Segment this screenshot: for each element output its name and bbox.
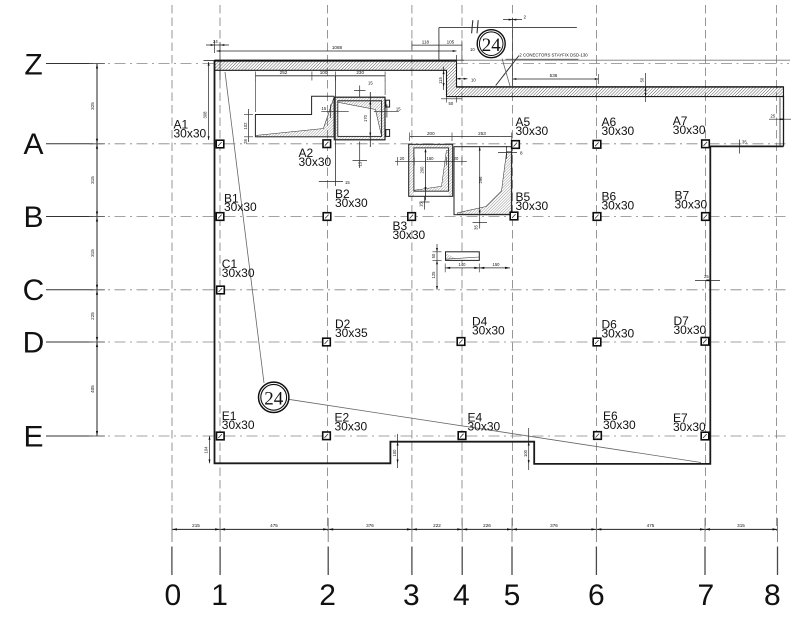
- svg-text:25: 25: [771, 114, 776, 119]
- elevator box S1 inner wall: [338, 101, 382, 137]
- svg-text:115: 115: [438, 76, 443, 83]
- S2 below-box dim 15: [420, 196, 430, 210]
- S2 right hatched wedge: [458, 152, 512, 215]
- label E4: [468, 411, 501, 434]
- svg-text:475: 475: [647, 523, 655, 528]
- label E1: [222, 409, 255, 432]
- svg-text:160: 160: [427, 156, 435, 161]
- column A6: [593, 141, 601, 149]
- stair structure S1 outline (A2 area): [255, 96, 334, 137]
- svg-text:0: 0: [164, 579, 181, 612]
- S2 centreline and dim 296: [473, 147, 488, 230]
- column E4: [458, 432, 466, 440]
- break mark slashes: [472, 20, 473, 33]
- svg-text:30x30: 30x30: [222, 418, 255, 432]
- svg-text:30x30: 30x30: [516, 199, 549, 213]
- svg-text:30x30: 30x30: [468, 420, 501, 434]
- svg-text:30x30: 30x30: [224, 200, 257, 214]
- svg-text:15: 15: [322, 106, 327, 111]
- svg-text:308: 308: [203, 111, 208, 119]
- S1 left wall centreline: [335, 76, 337, 186]
- right edge dim 25 at C-D: [695, 279, 720, 281]
- label B7: [675, 189, 708, 212]
- notch right dim 100: [523, 428, 530, 470]
- svg-text:325: 325: [90, 102, 95, 110]
- svg-text:24: 24: [482, 35, 502, 56]
- svg-text:200: 200: [420, 166, 425, 174]
- S1 bottom centreline cross 15: [353, 142, 368, 169]
- svg-text:Z: Z: [24, 49, 42, 82]
- svg-text:30x30: 30x30: [393, 228, 426, 242]
- bottom dimension chain: [172, 518, 778, 542]
- svg-text:D: D: [23, 326, 45, 359]
- svg-text:405: 405: [90, 385, 95, 393]
- label D7: [674, 314, 707, 337]
- grid vertical axis line 7: [705, 5, 707, 531]
- grid vertical axis line 6: [596, 5, 598, 531]
- label B5: [516, 190, 549, 213]
- label A1: [174, 118, 207, 141]
- svg-text:315: 315: [737, 523, 745, 528]
- svg-text:E: E: [23, 420, 43, 453]
- svg-text:30x30: 30x30: [603, 418, 636, 432]
- svg-text:15: 15: [358, 161, 363, 166]
- svg-text:7: 7: [697, 579, 714, 612]
- grid horizontal axis line B: [93, 216, 790, 218]
- label D6: [602, 318, 635, 341]
- column B5: [510, 212, 518, 220]
- svg-text:140: 140: [459, 262, 467, 267]
- label D4: [472, 315, 505, 338]
- svg-text:315: 315: [90, 176, 95, 184]
- dim 118/105: [412, 39, 475, 60]
- svg-text:315: 315: [90, 249, 95, 257]
- label E7: [673, 411, 706, 434]
- svg-text:230: 230: [356, 70, 364, 75]
- top wall with step (hatched): [215, 60, 784, 96]
- svg-text:376: 376: [550, 523, 558, 528]
- svg-text:118: 118: [422, 39, 430, 44]
- svg-text:24: 24: [264, 389, 284, 410]
- label A5: [516, 115, 549, 138]
- svg-text:35: 35: [474, 225, 479, 230]
- svg-text:30x30: 30x30: [673, 123, 706, 137]
- svg-text:2 CONECTORS STAYFIX DSD-130: 2 CONECTORS STAYFIX DSD-130: [519, 53, 588, 58]
- label B1: [224, 191, 257, 214]
- column E6: [594, 432, 602, 440]
- dim 24 at wall corner: [206, 39, 229, 53]
- svg-text:100: 100: [392, 449, 397, 457]
- parapet dim 25: [769, 118, 791, 120]
- svg-text:C: C: [23, 274, 45, 307]
- svg-text:20: 20: [400, 156, 405, 161]
- svg-text:30x35: 30x35: [335, 326, 368, 340]
- svg-text:5: 5: [504, 579, 521, 612]
- svg-text:8: 8: [520, 151, 523, 156]
- svg-text:296: 296: [478, 176, 483, 184]
- label A6: [602, 115, 635, 138]
- stair structure S2 left box outer wall (B3 area): [409, 144, 453, 196]
- svg-text:15: 15: [345, 180, 350, 185]
- S1 dimension line 252/100/230: [255, 70, 385, 112]
- dim 50 vertical on lower wall x=645: [640, 73, 647, 102]
- dim 2 at top: [503, 19, 522, 21]
- grid horizontal axis line Z: [93, 63, 215, 65]
- column E1: [217, 432, 225, 440]
- S1 cross tick left 15: [321, 105, 348, 119]
- svg-text:200: 200: [427, 131, 435, 136]
- svg-text:15: 15: [419, 202, 424, 207]
- svg-text:B: B: [23, 201, 43, 234]
- svg-text:30x30: 30x30: [602, 124, 635, 138]
- left dimension chain: [89, 64, 105, 437]
- column D4: [457, 338, 465, 346]
- svg-text:30x30: 30x30: [335, 420, 368, 434]
- svg-text:30x30: 30x30: [174, 126, 207, 140]
- label B3: [393, 219, 426, 242]
- elevator box S1 outer wall: [334, 97, 385, 140]
- column E2: [323, 432, 331, 440]
- top detail boundary line: [439, 27, 577, 29]
- grid horizontal axis line C: [93, 289, 790, 291]
- landing slab S3: [446, 252, 480, 261]
- label B2: [335, 187, 368, 210]
- svg-text:2: 2: [319, 579, 336, 612]
- svg-text:35: 35: [742, 140, 747, 145]
- dim 536 on lower wall: [513, 73, 599, 84]
- label D2: [335, 317, 368, 340]
- S2 inner vertical dim 200: [420, 148, 427, 200]
- svg-text:225: 225: [90, 312, 95, 320]
- svg-text:150: 150: [493, 262, 501, 267]
- column B2: [323, 213, 331, 221]
- column A1: [216, 140, 224, 148]
- grid vertical axis line 1: [219, 5, 221, 531]
- S2 dimension line 200/253: [410, 131, 512, 142]
- svg-text:100: 100: [320, 70, 328, 75]
- svg-text:253: 253: [478, 131, 486, 136]
- column A7: [702, 140, 710, 148]
- grid vertical axis line 3: [411, 5, 413, 531]
- svg-text:50: 50: [640, 77, 645, 82]
- detail circle 24 (bottom): [259, 382, 289, 412]
- svg-text:1088: 1088: [332, 45, 343, 50]
- column A2: [323, 140, 331, 148]
- elevator box S1 inner hatch wedge: [338, 101, 382, 136]
- svg-text:104: 104: [204, 446, 209, 454]
- svg-text:2: 2: [524, 15, 527, 20]
- leader line from detail circle 24 to bottom-right corner: [289, 399, 702, 462]
- svg-text:20: 20: [454, 156, 459, 161]
- grid vertical axis line 0: [171, 5, 173, 531]
- svg-text:8: 8: [764, 579, 781, 612]
- grid vertical axis line 2: [327, 5, 329, 531]
- S2 top cross dim 8: [498, 146, 517, 159]
- axis numbers 0-8: [164, 579, 780, 612]
- svg-text:30x30: 30x30: [674, 323, 707, 337]
- svg-text:25: 25: [704, 274, 709, 279]
- wall-to-axis dim 308: [203, 61, 215, 140]
- svg-text:30x30: 30x30: [602, 327, 635, 341]
- svg-text:50: 50: [449, 101, 454, 106]
- S1 inner vertical dim 170: [363, 92, 371, 147]
- svg-text:102: 102: [243, 122, 248, 130]
- svg-text:226: 226: [483, 523, 491, 528]
- svg-text:536: 536: [550, 73, 558, 78]
- label B6: [602, 190, 635, 213]
- S3 dimension line 140/150: [445, 262, 510, 272]
- svg-text:30x30: 30x30: [675, 198, 708, 212]
- svg-text:15: 15: [368, 81, 373, 86]
- svg-text:10: 10: [471, 77, 476, 82]
- svg-text:215: 215: [192, 523, 200, 528]
- column D7: [701, 338, 709, 346]
- S1 left vertical dims 102/28: [243, 109, 253, 144]
- svg-text:30x30: 30x30: [516, 124, 549, 138]
- S1 top tick 15: [354, 86, 366, 97]
- grid vertical axis line 4: [461, 5, 463, 531]
- axis letter leader lines: [46, 64, 93, 437]
- svg-text:170: 170: [363, 114, 368, 122]
- svg-text:252: 252: [280, 70, 288, 75]
- svg-text:30x30: 30x30: [222, 266, 255, 280]
- label A2: [299, 146, 332, 169]
- grid horizontal axis line A: [93, 143, 790, 145]
- svg-text:125: 125: [431, 271, 436, 279]
- column D6: [593, 338, 601, 346]
- column markers: [216, 140, 709, 440]
- bottom-left dim 104: [204, 436, 211, 463]
- axis number ticks above scale: [172, 547, 778, 576]
- dim 50 below step: [441, 97, 462, 106]
- svg-text:28: 28: [243, 139, 248, 144]
- dim 10 on step: [457, 77, 477, 82]
- svg-text:30x30: 30x30: [472, 324, 505, 338]
- S2 right room outline: [454, 147, 512, 215]
- S2 horizontal dims 20/160/20: [395, 156, 467, 166]
- svg-text:30x30: 30x30: [335, 196, 368, 210]
- label C1: [222, 257, 255, 280]
- S1 box right wall flanges: [386, 100, 390, 107]
- svg-text:105: 105: [447, 39, 455, 44]
- svg-text:30x30: 30x30: [602, 198, 635, 212]
- parapet at top right: [779, 98, 781, 147]
- svg-text:10: 10: [470, 47, 475, 52]
- S1 cross tick right 15: [374, 104, 399, 117]
- connectors leader lines: [496, 56, 519, 86]
- column C1: [217, 286, 225, 294]
- axis letters Z A B C D E: [23, 49, 45, 454]
- step corner tick: [449, 55, 464, 65]
- A7 edge dim 35: [728, 140, 752, 154]
- S3 vertical dims 50/125: [431, 244, 442, 290]
- column B6: [593, 213, 601, 221]
- grid vertical axis line 8: [776, 5, 778, 531]
- roof edge thin extension line: [457, 59, 791, 61]
- grid 1 solid run at wall: [219, 42, 221, 80]
- stair S1 hatched wedge: [255, 98, 334, 137]
- svg-text:100: 100: [523, 449, 528, 457]
- label E2: [335, 411, 368, 434]
- svg-text:50: 50: [431, 253, 436, 258]
- svg-text:475: 475: [270, 523, 278, 528]
- svg-text:30x30: 30x30: [299, 155, 332, 169]
- top detail left vertical: [438, 28, 440, 61]
- leader line from wall to detail circle 24 (bottom): [225, 72, 264, 383]
- svg-text:A: A: [23, 128, 43, 161]
- column B1: [216, 213, 224, 221]
- svg-text:1: 1: [211, 579, 228, 612]
- marker inner ticks: [218, 142, 707, 438]
- svg-text:6: 6: [588, 579, 605, 612]
- column B7: [702, 213, 710, 221]
- connector centreline x=512.5: [512, 18, 514, 88]
- column A5: [512, 141, 520, 149]
- grid horizontal axis line D: [93, 341, 790, 343]
- label E6: [603, 409, 636, 432]
- label A7: [673, 114, 706, 137]
- elevator box S1 wall band hatch: [334, 97, 385, 140]
- S2 left box inner wall: [414, 148, 449, 191]
- svg-text:24: 24: [213, 39, 218, 44]
- dim 115 step height: [438, 67, 445, 91]
- column D2: [323, 338, 331, 346]
- detail circle 24 (top): [477, 30, 505, 58]
- building outline: [215, 60, 784, 464]
- svg-text:222: 222: [433, 523, 441, 528]
- svg-text:3: 3: [403, 579, 420, 612]
- svg-text:15: 15: [396, 106, 401, 111]
- S2 left box inner hatch wedge: [414, 151, 449, 192]
- dim 1088 across top wall: [217, 45, 457, 52]
- svg-text:4: 4: [453, 579, 470, 612]
- S2 left box hatch bands: [409, 144, 453, 148]
- notch left dim 100: [392, 434, 399, 468]
- svg-text:30x30: 30x30: [673, 420, 706, 434]
- svg-text:376: 376: [366, 523, 374, 528]
- grid horizontal axis line E: [93, 435, 790, 437]
- grid vertical axis line 5: [512, 5, 514, 531]
- column B3: [408, 213, 416, 221]
- column E7: [701, 432, 709, 440]
